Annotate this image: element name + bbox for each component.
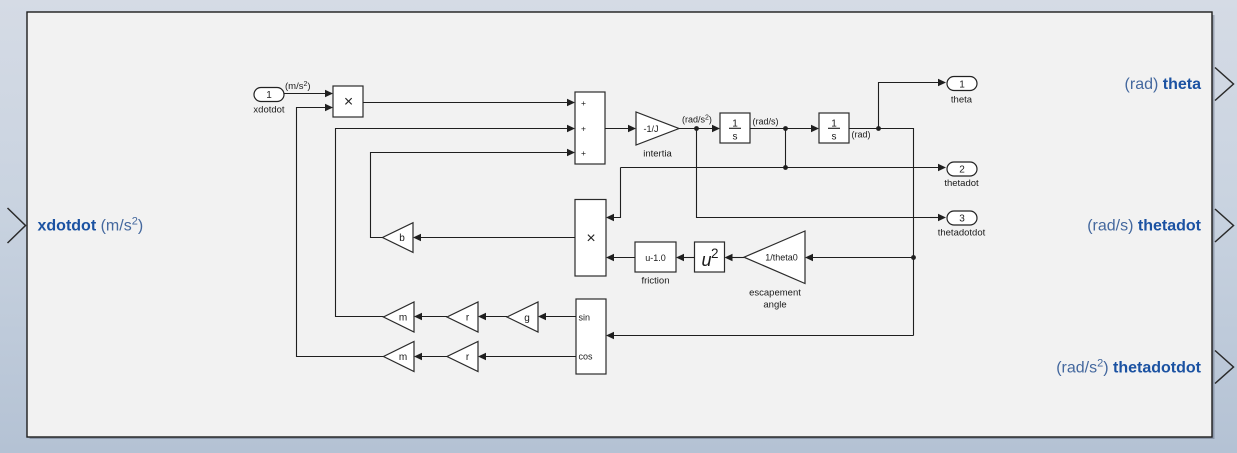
block u^2	[695, 242, 725, 272]
wire u^2 to u-1.0	[676, 254, 695, 261]
node rad junction	[876, 126, 881, 131]
svg-text:×: ×	[344, 93, 353, 110]
outport 1 theta	[947, 77, 977, 91]
node rad/s2 junction	[694, 126, 699, 131]
output port chevron theta	[1215, 68, 1234, 101]
wire integrator1 to integrator2	[750, 125, 819, 132]
wire rad/s down	[785, 129, 787, 168]
svg-text:+: +	[581, 124, 586, 134]
svg-text:2: 2	[711, 246, 719, 261]
label friction	[642, 276, 670, 287]
sincos block	[576, 299, 606, 374]
gain g	[507, 302, 538, 332]
outport 3 thetadotdot	[947, 211, 977, 225]
wire theta to sincos	[606, 332, 914, 339]
svg-text:(rad/s) thetadot: (rad/s) thetadot	[1087, 218, 1201, 235]
node theta to escapement junction	[911, 255, 916, 260]
svg-text:thetadot: thetadot	[944, 178, 979, 189]
inport label xdotdot	[253, 105, 285, 116]
label escapement angle	[749, 288, 801, 311]
label xdotdot (m/s2)	[38, 216, 144, 235]
input port chevron xdotdot	[8, 208, 26, 243]
integrator 1	[720, 113, 750, 143]
wire theta to outport1	[879, 79, 947, 129]
gain b	[383, 223, 414, 253]
gain r1	[447, 302, 478, 332]
svg-text:m: m	[399, 313, 407, 324]
wire sum to gain inertia	[605, 125, 636, 132]
annotation (m/s2)	[285, 81, 311, 92]
svg-text:+: +	[581, 148, 586, 158]
wire m2 to product P1 input2	[297, 104, 384, 357]
svg-text:2: 2	[959, 165, 965, 176]
svg-text:(rad/s): (rad/s)	[753, 117, 779, 127]
svg-text:xdotdot: xdotdot	[253, 105, 285, 116]
svg-text:escapement: escapement	[749, 288, 801, 299]
annotation (rad/s)	[753, 117, 779, 127]
wire r1 to m1	[414, 313, 447, 320]
wire product P1 to sum input1	[363, 99, 575, 106]
outport1 label theta	[951, 95, 973, 106]
wire r2 to m2	[414, 353, 447, 360]
wire product P2 to gain b	[413, 234, 575, 241]
svg-text:×: ×	[586, 230, 595, 247]
svg-text:cos: cos	[579, 352, 594, 362]
node thetadot junction	[783, 165, 788, 170]
svg-text:theta: theta	[951, 95, 973, 106]
wire gain to integrator1	[679, 125, 720, 132]
label (rad/s2) thetadotdot	[1056, 358, 1201, 377]
outport 2 thetadot	[947, 162, 977, 176]
svg-text:+: +	[581, 98, 586, 108]
annotation (rad)	[852, 130, 871, 140]
svg-text:1/theta0: 1/theta0	[765, 253, 798, 263]
svg-text:(rad) theta: (rad) theta	[1125, 76, 1202, 93]
wire u-1.0 to product P2	[606, 254, 635, 261]
gain m2	[384, 342, 415, 372]
wire sin to gain g	[538, 313, 576, 320]
svg-text:sin: sin	[579, 313, 591, 323]
svg-text:u-1.0: u-1.0	[645, 253, 666, 263]
wire inport to product P1	[284, 90, 333, 97]
svg-text:thetadotdot: thetadotdot	[938, 228, 986, 239]
sum block	[575, 92, 605, 164]
outport3 label thetadotdot	[938, 228, 986, 239]
block u-1.0 friction	[635, 242, 676, 272]
gain r2	[447, 342, 478, 372]
svg-text:3: 3	[959, 214, 965, 225]
svg-text:intertia: intertia	[643, 149, 672, 160]
wire g to r1	[478, 313, 507, 320]
svg-text:xdotdot (m/s2): xdotdot (m/s2)	[38, 216, 144, 235]
svg-text:(m/s2): (m/s2)	[285, 81, 311, 92]
gain m1	[384, 302, 415, 332]
inport 1 xdotdot	[254, 88, 284, 102]
svg-text:m: m	[399, 352, 407, 363]
outport2 label thetadot	[944, 178, 979, 189]
svg-text:b: b	[399, 233, 405, 244]
wire gain b to sum input3	[371, 149, 576, 238]
integrator 2	[819, 113, 849, 143]
svg-text:friction: friction	[642, 276, 670, 287]
svg-text:g: g	[524, 313, 530, 324]
svg-text:angle: angle	[763, 300, 786, 311]
svg-text:(rad): (rad)	[852, 130, 871, 140]
annotation (rad/s2)	[682, 115, 712, 125]
gain 1/theta0 escapement angle	[744, 231, 805, 284]
wire cos to r2	[478, 353, 576, 360]
gain -1/J intertia	[636, 112, 679, 145]
svg-text:-1/J: -1/J	[643, 124, 658, 134]
svg-text:1: 1	[266, 90, 272, 101]
wire 1/theta0 to u^2	[725, 254, 745, 261]
svg-text:s: s	[832, 132, 837, 143]
svg-text:1: 1	[959, 79, 965, 90]
svg-text:u: u	[702, 250, 712, 270]
wire rad/s2 down to outport3	[697, 129, 947, 222]
svg-text:s: s	[733, 132, 738, 143]
node rad/s junction	[783, 126, 788, 131]
svg-text:(rad/s2) thetadotdot: (rad/s2) thetadotdot	[1056, 358, 1201, 377]
wire m1 to sum input2	[336, 125, 576, 317]
label (rad) theta	[1125, 76, 1202, 93]
wire thetadot to outport2	[621, 164, 947, 171]
wire integrator2 to theta vertical	[849, 129, 914, 336]
wire thetadot to product P2 input1	[606, 168, 621, 222]
product P2	[575, 200, 606, 277]
output port chevron thetadotdot	[1215, 351, 1234, 384]
output port chevron thetadot	[1215, 209, 1234, 242]
gain label intertia	[643, 149, 672, 160]
product P1	[333, 86, 363, 117]
wire theta to gain 1/theta0	[805, 254, 914, 261]
label (rad/s) thetadot	[1087, 218, 1201, 235]
